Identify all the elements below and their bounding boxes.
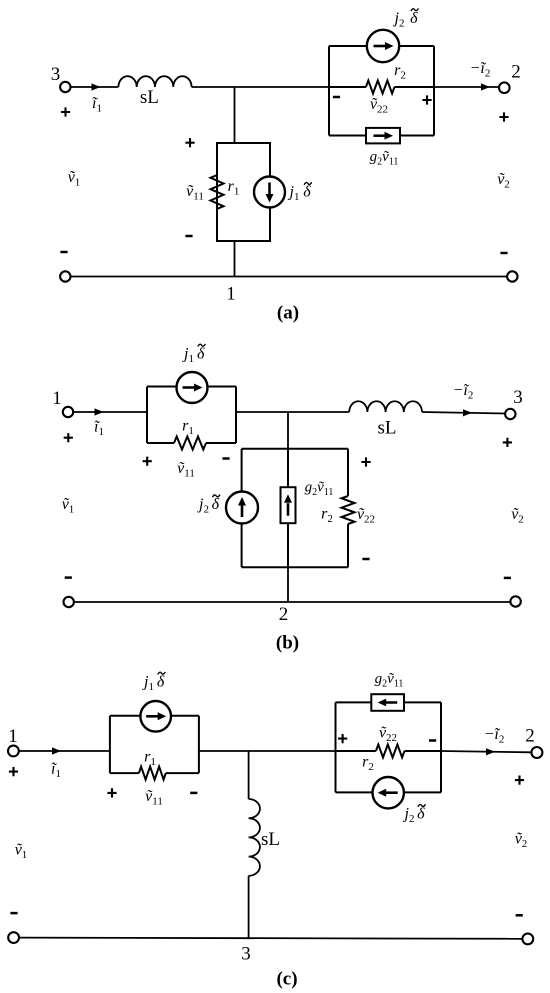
plus sign v22 (a) — [422, 95, 431, 104]
minus sign left port (a) — [60, 251, 67, 254]
label i1 tilde (c) — [51, 761, 61, 781]
minus sign left port (c) — [10, 912, 17, 915]
label j2 delta tilde (b) — [197, 495, 220, 516]
svg-text:1: 1 — [226, 284, 236, 305]
label g2 v11 tilde (a) — [370, 149, 399, 168]
label sL (b) — [378, 418, 397, 439]
label v11 tilde (a) — [186, 183, 204, 203]
minus sign right port (a) — [500, 252, 507, 255]
wire stem from r1 block to bottom rail, node 1 — [234, 241, 236, 277]
svg-text:(b): (b) — [276, 633, 299, 654]
svg-text:(a): (a) — [277, 303, 299, 324]
inductor sL vertical (c) — [249, 799, 260, 876]
label j2 delta tilde (c) — [403, 804, 426, 825]
caption (a) — [277, 303, 299, 324]
label 2 (a) — [511, 62, 521, 83]
inductor sL (b) — [349, 401, 422, 412]
svg-text:3: 3 — [51, 64, 61, 85]
label -i2 tilde (a) — [470, 60, 491, 80]
dependent source g2 v11 boxed arrow (b) — [281, 487, 296, 523]
wire from terminal 3 to inductor with current arrow i1 — [71, 83, 119, 90]
r1 / j1 parallel block outline (a) — [217, 143, 270, 241]
plus sign v22 (b) — [361, 457, 370, 466]
label v11 tilde (c) — [145, 788, 163, 808]
dependent source g2 v11 (c) — [371, 694, 404, 711]
svg-text:1: 1 — [8, 726, 18, 747]
label v22 tilde (c) — [379, 725, 397, 745]
svg-text:2: 2 — [511, 62, 521, 83]
dependent source g2 v11 (a) — [366, 128, 400, 143]
label r1 (c) — [144, 749, 156, 769]
label j1 delta tilde (c) — [142, 672, 165, 693]
svg-text:sL: sL — [261, 829, 280, 850]
label sL (c) — [261, 829, 280, 850]
label g2 v11 tilde (b) — [305, 480, 334, 499]
svg-text:2: 2 — [279, 604, 289, 625]
inductor sL (circuit a) — [118, 76, 191, 87]
minus sign v11 (a) — [185, 235, 192, 238]
terminal 1 (circuit b) — [63, 407, 73, 417]
plus sign right port (b) — [503, 438, 512, 447]
minus sign v22 (b) — [362, 558, 369, 561]
plus sign left port (b) — [64, 433, 73, 442]
label -i2 tilde (b) — [453, 382, 474, 402]
wire stem shunt block to bottom rail node 2 (b) — [287, 567, 289, 602]
svg-text:δ: δ — [197, 345, 205, 362]
plus sign left port (a) — [61, 107, 70, 116]
svg-text:δ: δ — [303, 184, 311, 201]
label j1 delta tilde (a) — [288, 182, 312, 203]
svg-text:δ: δ — [157, 673, 165, 690]
svg-text:3: 3 — [513, 387, 523, 408]
plus sign v11 (c) — [107, 788, 116, 797]
resistor r1 (b) — [174, 437, 206, 450]
plus sign right port (a) — [499, 112, 508, 121]
wire inductor to right block (circuit a) — [192, 86, 329, 88]
output wire with arrow -i2 (b) — [422, 409, 505, 416]
label r1 (b) — [182, 418, 194, 438]
label v2 tilde (c) — [515, 831, 528, 851]
label v22 tilde (b) — [357, 506, 375, 526]
bottom right terminal (b) — [510, 596, 520, 606]
label v2 tilde (a) — [497, 171, 510, 191]
bottom rail (a) — [71, 276, 508, 278]
resistor r2 (a) — [366, 81, 395, 94]
terminal 3 (port 1 top, circuit a) — [60, 82, 70, 92]
wire stem down to inductor (c) — [248, 751, 250, 799]
output wire with arrow -i2 (c) — [441, 748, 531, 755]
wire terminal 1 to r1 block with arrow i1 (c) — [19, 747, 110, 754]
plus sign v11 (a) — [185, 138, 194, 147]
label j2 delta tilde (a) — [393, 8, 419, 29]
terminal 1 (circuit c) — [8, 746, 19, 757]
bottom left terminal (b) — [63, 597, 73, 607]
svg-text:δ: δ — [212, 496, 220, 513]
plus sign v22 (c) — [338, 734, 347, 743]
label node 2 (b) — [279, 604, 289, 625]
plus sign right port (c) — [515, 776, 524, 785]
right parallel block outline (a): j2, r2, g2v11 — [329, 46, 434, 136]
current source j1 delta (b) — [177, 372, 208, 403]
label v11 tilde (b) — [177, 460, 195, 480]
resistor r2 (c) — [376, 745, 405, 758]
label 3 — [51, 64, 61, 85]
minus sign right port (c) — [516, 914, 523, 917]
wire stem from top rail down to r1 parallel block — [234, 87, 236, 143]
caption (b) — [276, 633, 299, 654]
svg-text:δ: δ — [417, 806, 425, 823]
label node 3 (c) — [241, 944, 251, 965]
terminal 3 (b) — [505, 409, 515, 419]
label 1 (c) — [8, 726, 18, 747]
r1 / j1 parallel block outline (c) — [110, 716, 199, 773]
current source j2 delta (c) — [373, 777, 404, 808]
bottom left terminal (a) — [60, 271, 70, 281]
label r2 (c) — [362, 754, 374, 774]
right parallel block outline (c): g2v11, r2, j2 — [336, 702, 442, 792]
minus sign v11 (c) — [190, 792, 197, 795]
plus sign left port (c) — [9, 767, 18, 776]
label v1 tilde (c) — [15, 842, 28, 862]
label v22 tilde (a) — [370, 96, 388, 116]
wire stem inductor to bottom rail node 3 (c) — [248, 876, 250, 938]
label r1 (a) — [228, 178, 240, 198]
current source j1 delta (a) — [254, 177, 285, 208]
svg-text:δ: δ — [410, 10, 418, 27]
bottom right terminal (a) — [507, 271, 517, 281]
output wire with arrow -i2 (a) — [434, 83, 499, 90]
shunt parallel block outline (b): j2, g2v11, r2 — [242, 449, 348, 567]
bottom rail (b) — [74, 601, 511, 603]
label r2 (b) — [321, 506, 333, 526]
svg-text:sL: sL — [140, 87, 159, 108]
wire r1 block to right block (c) — [199, 750, 336, 752]
current source j1 delta (c) — [140, 701, 171, 732]
label i1 tilde (b) — [94, 419, 104, 439]
label r2 (a) — [394, 62, 406, 82]
label g2 v11 tilde (c) — [375, 671, 404, 690]
minus sign v11 (b) — [222, 457, 229, 460]
plus sign v11 (b) — [143, 457, 152, 466]
terminal 2 (a) — [499, 82, 510, 93]
label sL — [140, 87, 159, 108]
current source j2 delta (b) — [226, 492, 258, 524]
resistor r1 (c) — [139, 767, 166, 780]
caption (c) — [276, 969, 297, 990]
label j1 delta tilde (b) — [182, 344, 205, 365]
terminal 2 (c) — [531, 747, 542, 758]
minus sign v22 (a) — [333, 96, 340, 99]
svg-text:2: 2 — [525, 726, 535, 747]
label 3 (b) — [513, 387, 523, 408]
resistor r1 (a) — [211, 175, 224, 209]
label 1 (b) — [52, 388, 62, 409]
minus sign right port (b) — [504, 577, 511, 580]
bottom left terminal (c) — [8, 932, 19, 943]
minus sign left port (b) — [65, 576, 72, 579]
resistor r2 (b) — [342, 496, 355, 524]
minus sign v22 (c) — [429, 739, 436, 742]
wire r1 block to inductor (b) — [236, 411, 349, 413]
current source j2 delta (a) — [367, 30, 399, 62]
bottom right terminal (c) — [522, 934, 533, 945]
bottom rail (c) — [19, 938, 522, 939]
svg-text:sL: sL — [378, 418, 397, 439]
label 2 (c) — [525, 726, 535, 747]
r1 / j1 parallel block outline (b) — [147, 387, 236, 444]
svg-text:1: 1 — [52, 388, 62, 409]
label v2 tilde (b) — [511, 506, 524, 526]
wire stem down to shunt block (b) — [287, 412, 289, 449]
label i1 tilde — [92, 95, 102, 115]
label -i2 tilde (c) — [484, 726, 505, 746]
label node 1 (a) — [226, 284, 236, 305]
svg-text:(c): (c) — [276, 969, 297, 990]
wire terminal 1 to r1 block with arrow i1 (b) — [73, 408, 147, 415]
label v1 tilde (b) — [62, 496, 75, 516]
label v1 tilde (a) — [68, 169, 81, 189]
svg-text:3: 3 — [241, 944, 251, 965]
